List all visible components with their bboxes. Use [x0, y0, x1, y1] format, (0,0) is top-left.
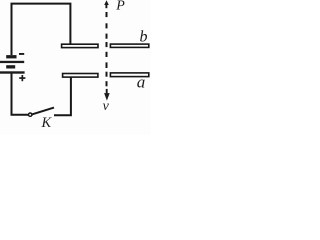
svg-text:b: b: [140, 29, 148, 46]
svg-text:K: K: [41, 115, 53, 131]
svg-text:P: P: [115, 0, 125, 14]
svg-text:v: v: [103, 99, 110, 114]
svg-text:a: a: [137, 73, 146, 92]
